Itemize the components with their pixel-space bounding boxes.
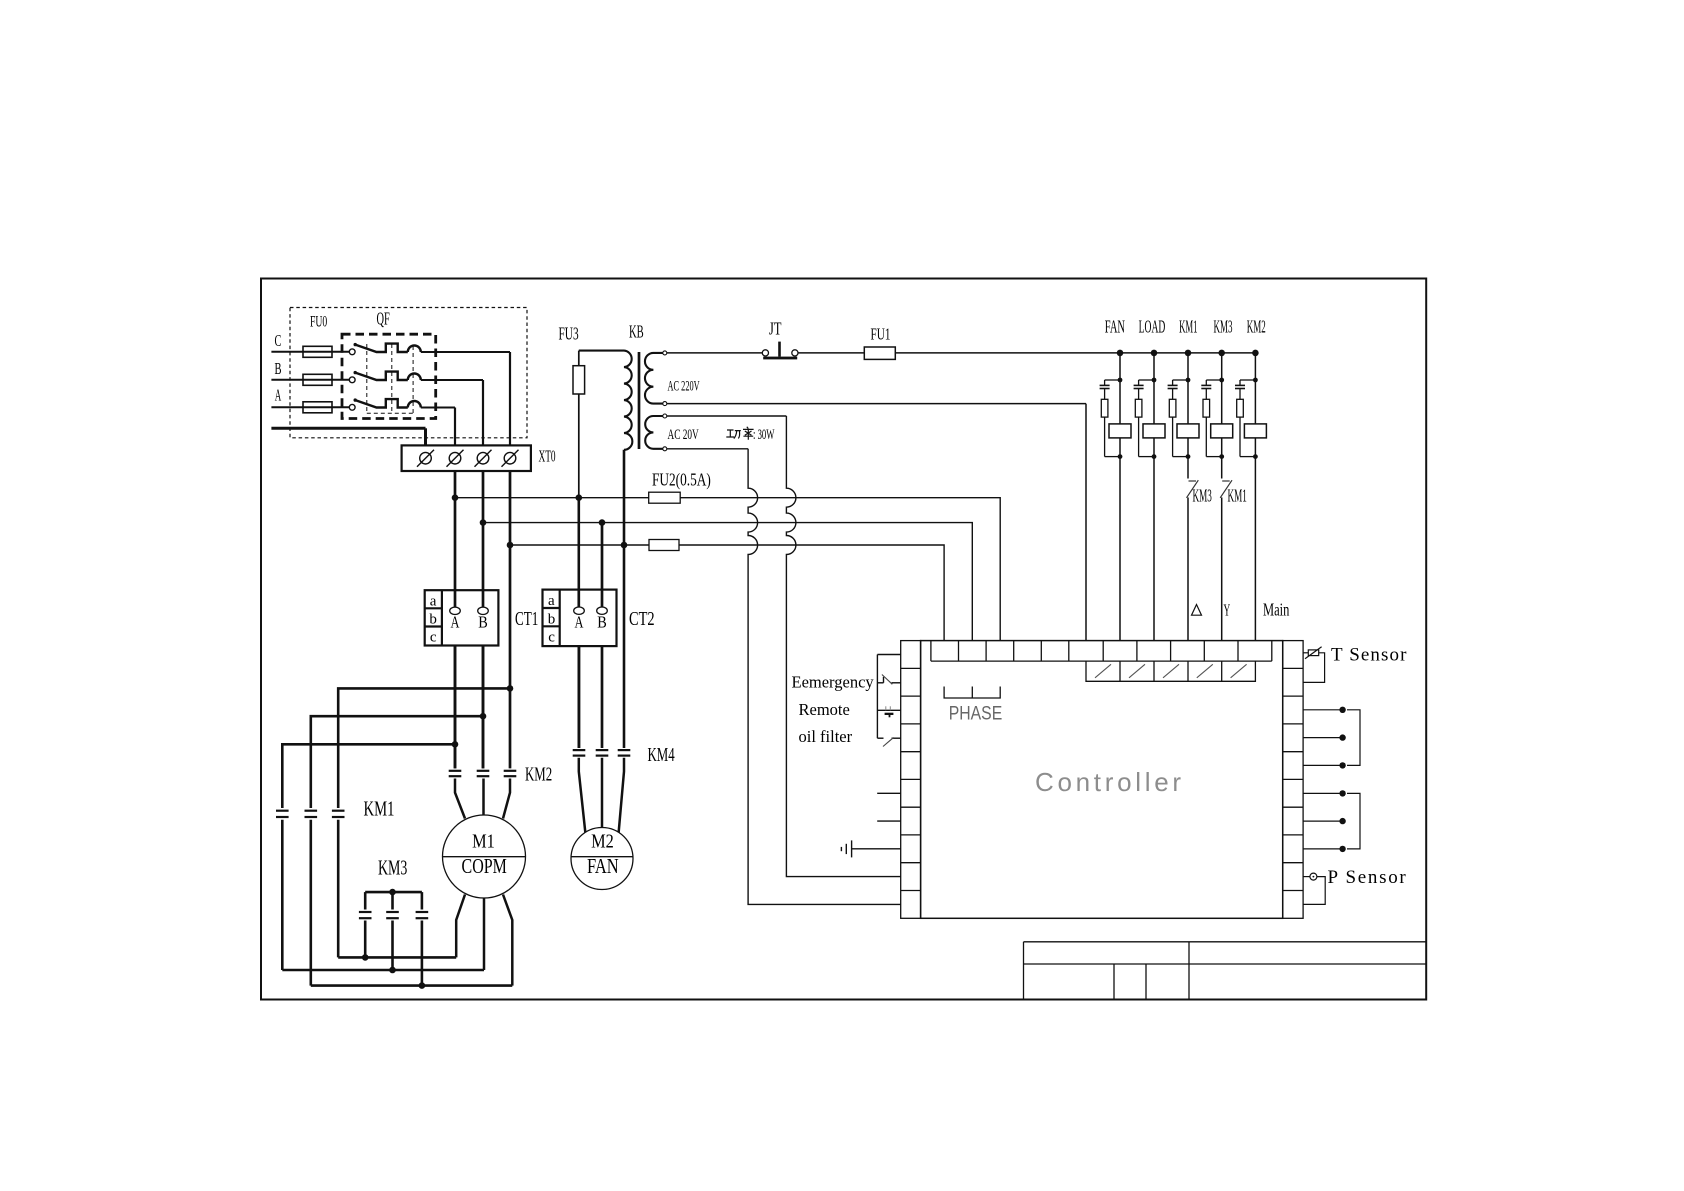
svg-text:A: A — [451, 614, 460, 632]
svg-text:KM3: KM3 — [1193, 487, 1212, 507]
svg-text:Remote: Remote — [799, 700, 850, 719]
svg-text:A: A — [275, 386, 282, 405]
svg-text:FU1: FU1 — [871, 325, 891, 344]
svg-text:a: a — [548, 593, 555, 609]
svg-text:KB: KB — [629, 323, 644, 343]
svg-text:CT1: CT1 — [515, 607, 538, 629]
svg-text:Y: Y — [1224, 601, 1231, 620]
svg-text:a: a — [430, 593, 437, 609]
svg-text:AC 20V: AC 20V — [668, 426, 699, 443]
svg-text:KM2: KM2 — [525, 763, 552, 786]
svg-text:PHASE: PHASE — [949, 702, 1002, 724]
svg-text:JT: JT — [769, 320, 782, 340]
svg-text:M2: M2 — [591, 830, 614, 852]
svg-text:LOAD: LOAD — [1139, 317, 1166, 337]
svg-text:B: B — [597, 613, 607, 631]
svg-text:Main: Main — [1263, 600, 1290, 620]
svg-text:c: c — [548, 630, 555, 646]
svg-text:COPM: COPM — [462, 855, 508, 879]
svg-text:XT0: XT0 — [539, 447, 556, 466]
svg-text:C: C — [275, 332, 282, 350]
svg-text:: 30W: : 30W — [753, 426, 775, 443]
svg-text:B: B — [275, 360, 282, 379]
svg-text:b: b — [548, 611, 556, 627]
svg-text:T Sensor: T Sensor — [1331, 645, 1408, 666]
svg-text:FU0: FU0 — [310, 312, 327, 330]
svg-text:c: c — [430, 630, 437, 646]
svg-text:KM1: KM1 — [1179, 317, 1197, 337]
svg-text:KM3: KM3 — [1214, 317, 1233, 337]
svg-text:AC 220V: AC 220V — [668, 377, 700, 394]
svg-text:oil filter: oil filter — [799, 727, 853, 746]
svg-text:A: A — [575, 614, 584, 632]
svg-text:KM3: KM3 — [378, 856, 407, 880]
svg-text:Eemergency: Eemergency — [792, 673, 875, 692]
svg-text:FU2(0.5A): FU2(0.5A) — [652, 471, 711, 490]
svg-text:FAN: FAN — [1105, 318, 1125, 338]
svg-text:B: B — [478, 613, 488, 631]
svg-text:Controller: Controller — [1035, 767, 1185, 797]
svg-text:KM1: KM1 — [1228, 487, 1247, 507]
svg-text:FU3: FU3 — [559, 325, 579, 344]
svg-text:KM1: KM1 — [364, 797, 395, 820]
svg-text:KM2: KM2 — [1247, 317, 1266, 337]
svg-text:QF: QF — [377, 310, 390, 330]
svg-text:CT2: CT2 — [629, 607, 655, 630]
svg-text:M1: M1 — [472, 830, 495, 852]
svg-text:FAN: FAN — [587, 855, 619, 878]
svg-text:KM4: KM4 — [648, 743, 676, 766]
svg-text:b: b — [429, 612, 437, 628]
svg-text:P Sensor: P Sensor — [1328, 867, 1408, 888]
